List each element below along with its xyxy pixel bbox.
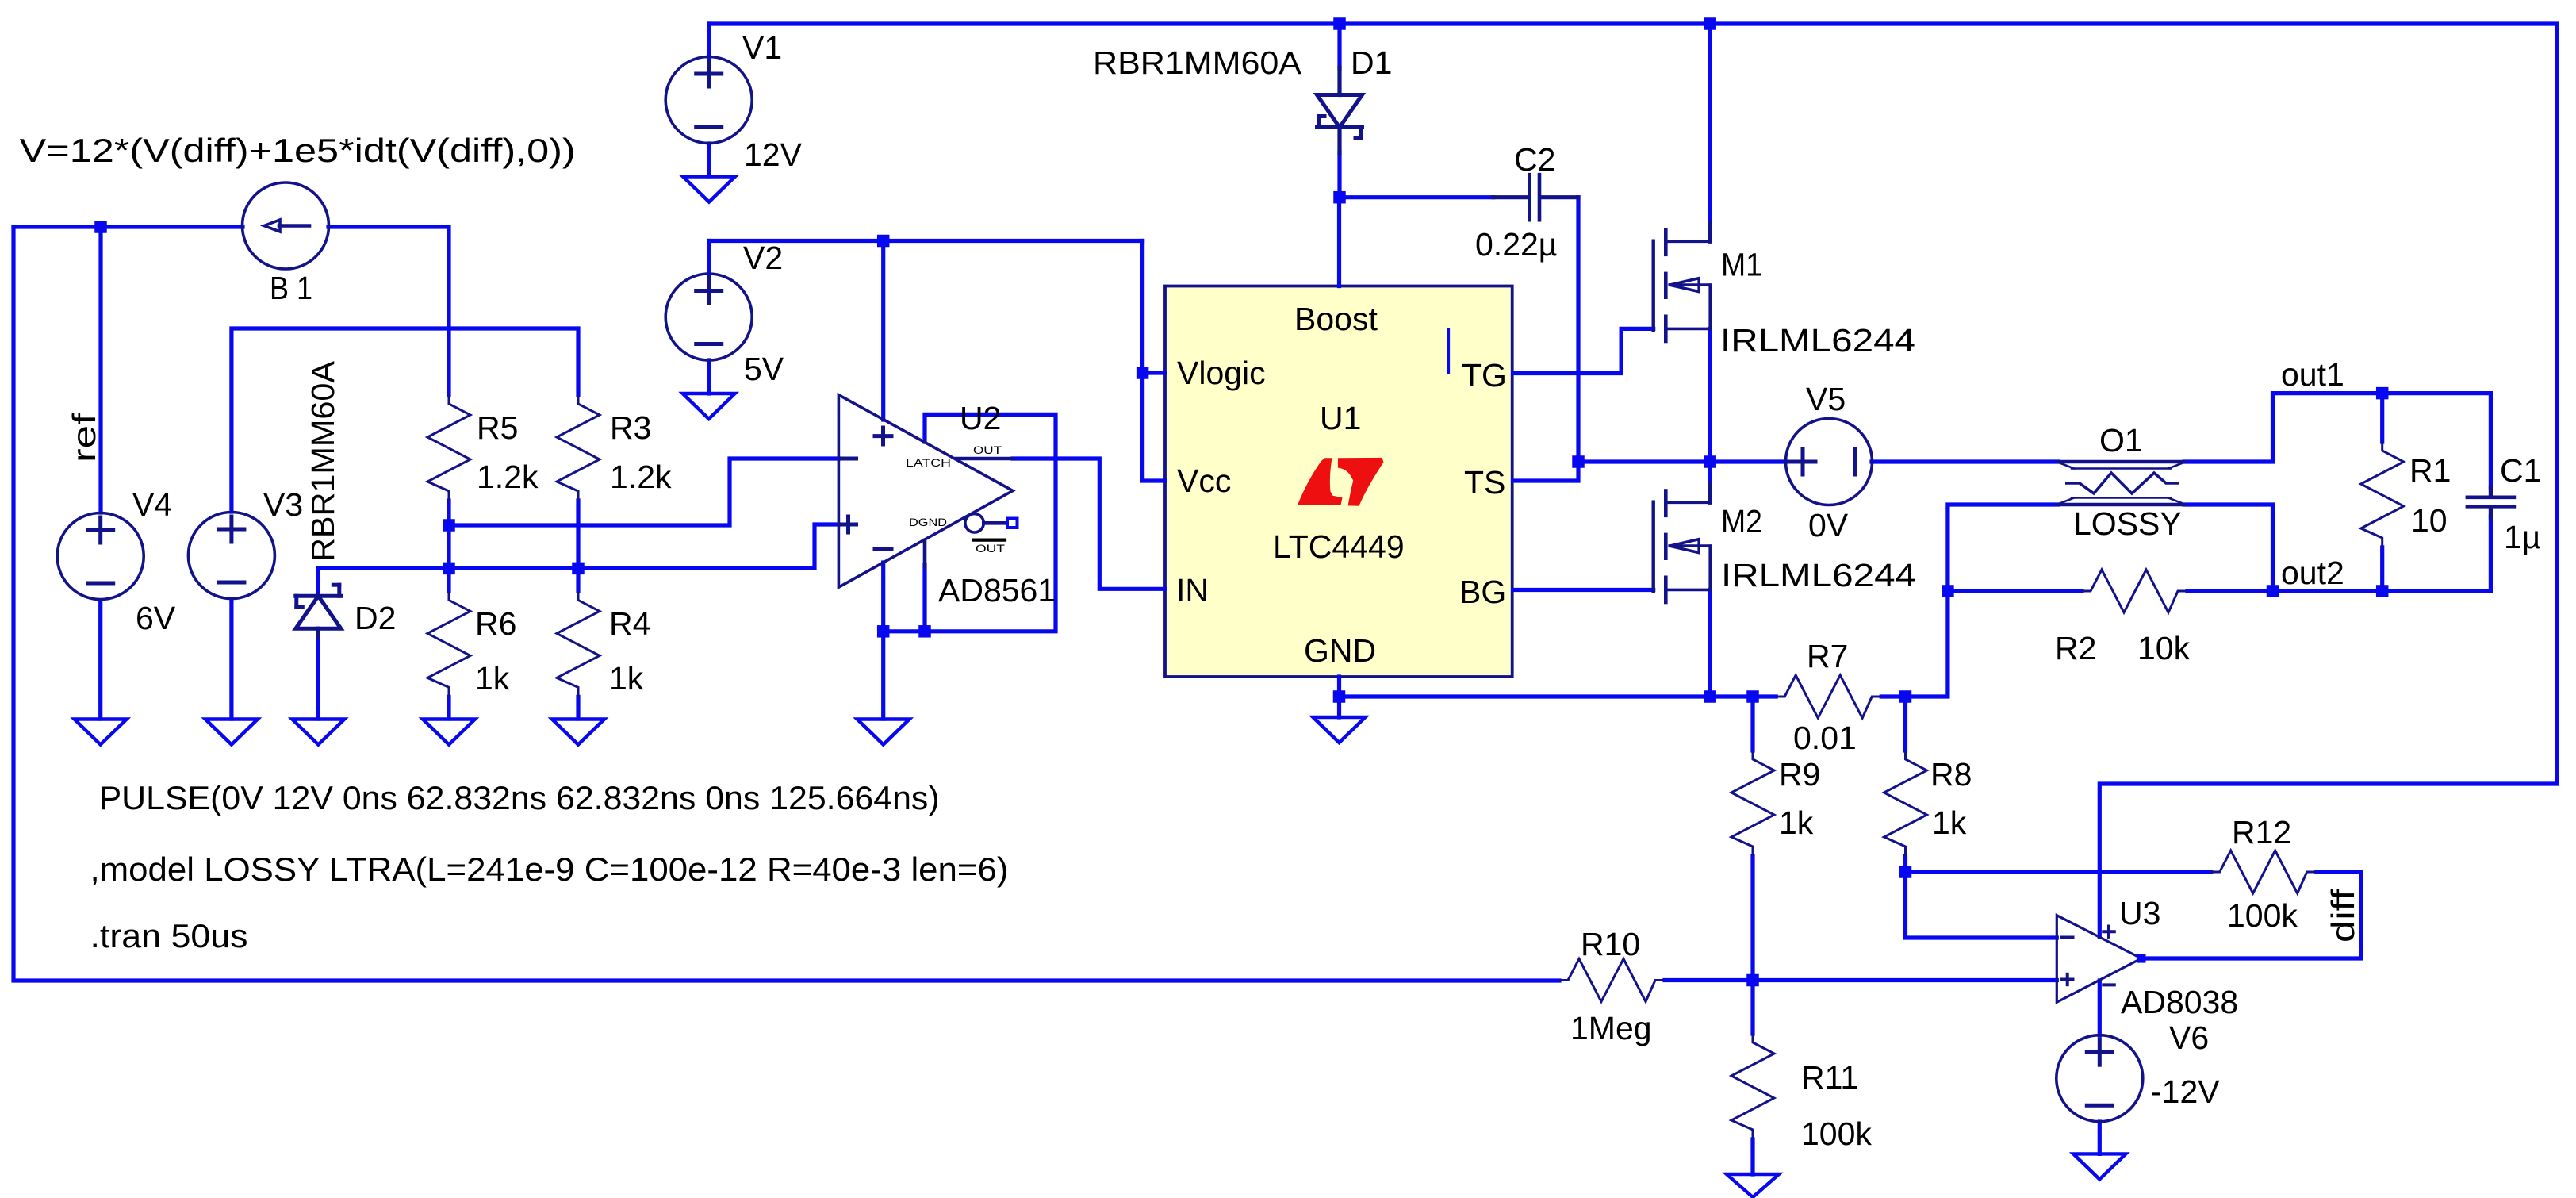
- wire TS pin stub: [1513, 462, 1578, 481]
- wire U2 DGND column: [922, 565, 926, 632]
- voltage source V4 symbol: [57, 513, 144, 600]
- svg-text:M1: M1: [1721, 247, 1762, 283]
- wire R3 bottom to junction: [576, 501, 580, 568]
- behavioral current source B1 symbol: [243, 182, 329, 269]
- wire R8 bottom lead: [1903, 856, 1907, 872]
- wire Vlogic pin stub: [1143, 371, 1165, 374]
- label V2: [743, 240, 783, 276]
- label C1 value: [2504, 519, 2540, 555]
- label V6 value -12V: [2151, 1073, 2220, 1110]
- wire node R5R6 column: [447, 525, 450, 568]
- wire M2 source to GND row: [1708, 590, 1712, 697]
- wire R4 top lead: [576, 568, 580, 591]
- wire TS row to M2 drain: [1708, 462, 1712, 486]
- voltage source V2 symbol: [665, 274, 752, 360]
- capacitor C2 plates: [1530, 175, 1540, 220]
- ground below D2: [292, 720, 344, 745]
- svg-text:OUT: OUT: [973, 444, 1002, 456]
- svg-text:V3: V3: [263, 486, 303, 523]
- svg-text:TS: TS: [1464, 464, 1505, 501]
- diode D1 symbol: [1317, 68, 1363, 153]
- wire C2 left lead: [1340, 195, 1494, 199]
- label V2 value 5V: [744, 351, 784, 387]
- svg-text:Boost: Boost: [1294, 301, 1378, 337]
- label R12 value: [2227, 897, 2298, 934]
- voltage source V3 symbol: [188, 513, 274, 599]
- wire R9 top lead: [1750, 697, 1754, 751]
- wire U3 V- to V6: [2098, 981, 2102, 1035]
- wire R11 bottom to ground: [1750, 1139, 1754, 1174]
- svg-text:1k: 1k: [1779, 804, 1814, 841]
- wire R12 right to diff loop: [2141, 872, 2361, 958]
- svg-text:LTC4449: LTC4449: [1273, 528, 1405, 565]
- svg-text:RBR1MM60A: RBR1MM60A: [305, 360, 341, 562]
- svg-text:1Meg: 1Meg: [1570, 1010, 1652, 1046]
- svg-text:6V: 6V: [136, 600, 176, 636]
- wire R1 top lead: [2380, 394, 2384, 442]
- voltage source V6 symbol: [2057, 1035, 2143, 1122]
- svg-text:R2: R2: [2055, 630, 2096, 666]
- wire O1 top-right to out1 row: [2184, 394, 2490, 462]
- wire R5 bottom to junction: [447, 501, 450, 525]
- label U1 pin Boost: [1294, 301, 1378, 337]
- wire D2 row to U2 non-inverting input: [318, 524, 838, 596]
- svg-text:U3: U3: [2119, 895, 2160, 931]
- wire O1 bottom-right to out2 row: [2184, 505, 2273, 591]
- transistor M2 IRLML6244 symbol: [1654, 484, 1711, 602]
- label C2 value: [1475, 226, 1557, 263]
- svg-text:.tran 50us: .tran 50us: [90, 917, 248, 954]
- svg-text:OUT: OUT: [976, 543, 1005, 555]
- svg-text:10: 10: [2411, 502, 2448, 539]
- svg-text:100k: 100k: [2227, 897, 2298, 934]
- label U2 pin DGND: [909, 516, 947, 528]
- label out2 net: [2281, 555, 2344, 591]
- label O1: [2099, 422, 2143, 459]
- svg-text:0.22µ: 0.22µ: [1475, 226, 1557, 263]
- wire R2 right lead: [2187, 589, 2273, 593]
- voltage source V1 symbol: [665, 57, 752, 144]
- svg-text:RBR1MM60A: RBR1MM60A: [1093, 44, 1302, 81]
- svg-text:LATCH: LATCH: [906, 457, 951, 469]
- ground below R6: [423, 720, 475, 745]
- svg-text:R4: R4: [609, 605, 650, 642]
- wire U1 GND pin: [1337, 677, 1341, 697]
- svg-text:V4: V4: [132, 486, 172, 523]
- label V6: [2169, 1019, 2209, 1056]
- svg-text:AD8038: AD8038: [2121, 984, 2238, 1020]
- ground below R11: [1727, 1174, 1779, 1197]
- label R3 value: [610, 459, 672, 495]
- svg-text:12V: 12V: [744, 136, 803, 173]
- op-amp U3 AD8038 symbol: [2057, 916, 2145, 1003]
- wire B1 right to R5 top: [328, 227, 449, 395]
- wire R2 left lead: [1948, 589, 2082, 593]
- ground below V2: [683, 394, 735, 419]
- wire C1 top lead: [2489, 394, 2493, 487]
- label M2: [1721, 503, 1762, 539]
- transistor M1 IRLML6244 symbol: [1654, 223, 1711, 341]
- wire Boost pin column: [1337, 198, 1341, 286]
- label V5 value 0V: [1808, 507, 1849, 543]
- label V4 value 6V: [136, 600, 176, 636]
- label V5: [1806, 381, 1846, 417]
- wire M1 drain column: [1708, 24, 1712, 225]
- label model directive: [90, 851, 1009, 888]
- label PULSE directive: [99, 779, 940, 816]
- label M1 part IRLML6244: [1720, 322, 1915, 359]
- svg-text:LOSSY: LOSSY: [2073, 505, 2182, 542]
- label R11: [1801, 1059, 1858, 1096]
- wire V2 bottom to ground: [707, 360, 711, 394]
- label C2: [1514, 141, 1555, 178]
- svg-text:B 1: B 1: [270, 270, 312, 306]
- wire junction dots: [94, 17, 2388, 986]
- resistor R3 body: [557, 395, 600, 501]
- label D2: [355, 600, 396, 636]
- svg-text:R9: R9: [1779, 756, 1820, 793]
- resistor R8 body: [1884, 751, 1927, 856]
- svg-text:TG: TG: [1462, 357, 1507, 394]
- wire GND row left of R7: [1340, 694, 1777, 698]
- overline of OUTbar: [974, 538, 1005, 541]
- svg-text:AD8561: AD8561: [938, 572, 1056, 609]
- resistor R1 body: [2361, 442, 2404, 547]
- label B1 value expression: [20, 132, 576, 169]
- ground below U2: [857, 720, 910, 745]
- svg-text:DGND: DGND: [909, 516, 947, 528]
- resistor R9 body: [1731, 751, 1774, 856]
- op-amp driver U1 LTC4449 body: [1165, 286, 1512, 678]
- wire D1 top lead: [1337, 24, 1341, 69]
- wire TG net tick inside U1: [1447, 329, 1450, 373]
- svg-text:M2: M2: [1721, 503, 1762, 539]
- label R10 value: [1570, 1010, 1652, 1046]
- wire R4 bottom to ground: [576, 697, 580, 719]
- wire V3 bottom to ground: [229, 600, 233, 719]
- wire V5 right to O1 top-left: [1872, 459, 2058, 463]
- wire B1 left segment: [13, 225, 243, 228]
- svg-text:1k: 1k: [1932, 804, 1967, 841]
- svg-text:R1: R1: [2409, 452, 2451, 489]
- label B1: [270, 270, 312, 306]
- ground below V1: [683, 177, 735, 202]
- svg-text:IN: IN: [1176, 572, 1209, 609]
- label R2: [2055, 630, 2096, 666]
- label R1 value: [2411, 502, 2448, 539]
- wire V1 top lead: [707, 24, 711, 57]
- label out1 net: [2281, 356, 2344, 393]
- label V3: [263, 486, 303, 523]
- label U1 pin IN: [1176, 572, 1209, 609]
- label ref net: [66, 413, 102, 463]
- svg-text:BG: BG: [1459, 574, 1506, 610]
- label U1 pin GND: [1304, 632, 1376, 669]
- svg-text:R12: R12: [2232, 814, 2291, 851]
- svg-text:R8: R8: [1930, 756, 1972, 793]
- label U2: [960, 400, 1001, 436]
- label R4 value: [609, 660, 644, 697]
- svg-text:C2: C2: [1514, 141, 1555, 178]
- label U1: [1320, 400, 1361, 436]
- svg-text:D2: D2: [355, 600, 396, 636]
- label R8: [1930, 756, 1972, 793]
- wire M1 source to TS row: [1708, 328, 1712, 462]
- wire R9 bottom to R10 row: [1750, 856, 1754, 981]
- wire R8 junction to R12: [1906, 870, 2211, 874]
- wire C2 right column to TS junction: [1576, 198, 1580, 462]
- wire V6 bottom to ground: [2098, 1122, 2102, 1154]
- wire TG pin to M1 gate: [1513, 328, 1654, 373]
- label U1 pin Vcc: [1177, 463, 1231, 499]
- svg-text:out1: out1: [2281, 356, 2344, 393]
- wire top 12V rail with right border to U3 V+: [709, 24, 2557, 937]
- label R5 value: [477, 459, 539, 495]
- resistor R6 body: [427, 591, 470, 697]
- label U1 part LTC4449: [1273, 528, 1405, 565]
- label D1: [1351, 44, 1392, 81]
- label R2 value: [2137, 630, 2191, 666]
- diode D2 symbol: [296, 585, 341, 637]
- svg-text:1.2k: 1.2k: [477, 459, 539, 495]
- wire U1 ground stub: [1337, 697, 1341, 717]
- label C1: [2500, 452, 2541, 489]
- wire V2 top lead: [707, 241, 711, 275]
- wire BG pin to M2 gate: [1513, 588, 1654, 592]
- wire R11 top lead: [1750, 981, 1754, 1035]
- svg-text:10k: 10k: [2137, 630, 2191, 666]
- svg-text:R11: R11: [1801, 1059, 1858, 1096]
- wire R5-junction row to U2 inverting input: [449, 459, 838, 525]
- svg-text:1k: 1k: [475, 660, 510, 697]
- wire C1 bottom lead: [2489, 516, 2493, 591]
- svg-text:5V: 5V: [744, 351, 784, 387]
- wire R6 bottom to ground: [447, 697, 450, 719]
- svg-text:V5: V5: [1806, 381, 1846, 417]
- svg-text:R3: R3: [610, 409, 651, 446]
- svg-text:PULSE(0V 12V 0ns 62.832ns 62.8: PULSE(0V 12V 0ns 62.832ns 62.832ns 0ns 1…: [99, 779, 940, 816]
- wire GND row right of R7: [1881, 694, 1905, 698]
- wire U2 V- column to ground: [881, 563, 885, 719]
- label R6 value: [475, 660, 510, 697]
- svg-text:V1: V1: [742, 29, 782, 66]
- label M2 part IRLML6244: [1721, 557, 1916, 593]
- resistor R7 body: [1776, 675, 1881, 718]
- svg-text:100k: 100k: [1801, 1115, 1872, 1152]
- svg-text:,model LOSSY LTRA(L=241e-9 C=1: ,model LOSSY LTRA(L=241e-9 C=100e-12 R=4…: [90, 851, 1009, 888]
- svg-text:-12V: -12V: [2151, 1073, 2220, 1110]
- wire inverting input of U3: [1906, 872, 2057, 938]
- svg-text:R5: R5: [477, 409, 518, 446]
- svg-text:V=12*(V(diff)+1e5*idt(V(diff),: V=12*(V(diff)+1e5*idt(V(diff),0)): [20, 132, 576, 169]
- svg-text:R10: R10: [1581, 926, 1640, 962]
- label R6: [475, 605, 516, 642]
- label V4: [132, 486, 172, 523]
- resistor R5 body: [427, 395, 470, 501]
- resistor R10 body: [1559, 959, 1665, 1002]
- label M1: [1721, 247, 1762, 283]
- wire R10 row to U3 non-inverting input: [1665, 978, 2057, 982]
- capacitor C1 leads: [2489, 487, 2493, 517]
- svg-text:ref: ref: [66, 413, 102, 463]
- svg-text:0V: 0V: [1808, 507, 1849, 543]
- wire U2 LATCH to box top: [884, 414, 1056, 631]
- label RBR1MM60A for D2: [305, 360, 341, 562]
- LT logo on U1: [1298, 458, 1384, 506]
- label R12: [2232, 814, 2291, 851]
- wire V3 top to R3 top row: [232, 328, 578, 512]
- svg-text:V6: V6: [2169, 1019, 2209, 1056]
- capacitor C2 leads: [1493, 195, 1578, 199]
- svg-text:U2: U2: [960, 400, 1001, 436]
- wire V1 bottom to ground: [707, 144, 711, 176]
- wire R8 top lead: [1903, 697, 1907, 751]
- svg-text:1µ: 1µ: [2504, 519, 2540, 555]
- wire R1 bottom lead: [2380, 547, 2384, 591]
- label R7 value: [1793, 720, 1857, 756]
- label U3: [2119, 895, 2160, 931]
- label U2 pin LATCH: [906, 457, 951, 469]
- resistor R4 body: [557, 591, 600, 697]
- svg-text:diff: diff: [2325, 889, 2361, 943]
- svg-text:Vlogic: Vlogic: [1177, 355, 1266, 391]
- svg-text:1k: 1k: [609, 660, 644, 697]
- svg-text:out2: out2: [2281, 555, 2344, 591]
- label R5: [477, 409, 518, 446]
- svg-text:IRLML6244: IRLML6244: [1721, 557, 1916, 593]
- comparator U2 AD8561 symbol: [838, 395, 1017, 588]
- svg-text:Vcc: Vcc: [1177, 463, 1231, 499]
- label R3: [610, 409, 651, 446]
- label RBR1MM60A for D1: [1093, 44, 1302, 81]
- wire Vlogic-Vcc column: [1143, 241, 1165, 482]
- label R9 value: [1779, 804, 1814, 841]
- svg-text:0.01: 0.01: [1793, 720, 1857, 756]
- svg-text:1.2k: 1.2k: [610, 459, 672, 495]
- wire TS row to V5: [1578, 459, 1786, 463]
- wire U2 V+ supply column: [881, 241, 885, 420]
- label diff net: [2325, 889, 2361, 943]
- label U1 pin TS: [1464, 464, 1505, 501]
- wire O1 bottom-left to GND junction: [1906, 505, 2059, 697]
- label R8 value: [1932, 804, 1967, 841]
- svg-text:R7: R7: [1807, 638, 1848, 674]
- ground below V6: [2073, 1154, 2126, 1179]
- svg-text:GND: GND: [1304, 632, 1376, 669]
- label U2 part AD8561: [938, 572, 1056, 609]
- ground below V4: [75, 720, 127, 745]
- wire node ref column B1 to V4: [98, 227, 102, 513]
- label U1 pin TG: [1462, 357, 1507, 394]
- wire D1 bottom to C2 junction: [1337, 152, 1341, 198]
- resistor R12 body: [2211, 851, 2317, 893]
- svg-text:U1: U1: [1320, 400, 1361, 436]
- ground below U1: [1313, 717, 1366, 743]
- resistor R11 body: [1731, 1034, 1774, 1139]
- wire V4 bottom to ground: [98, 601, 102, 719]
- svg-text:R6: R6: [475, 605, 516, 642]
- ground below V3: [205, 720, 258, 745]
- wire R6 top lead: [447, 568, 450, 591]
- svg-text:C1: C1: [2500, 452, 2541, 489]
- label R10: [1581, 926, 1640, 962]
- label U3 part AD8038: [2121, 984, 2238, 1020]
- svg-text:IRLML6244: IRLML6244: [1720, 322, 1915, 359]
- svg-text:V2: V2: [743, 240, 783, 276]
- wire D2 bottom to ground: [316, 637, 320, 719]
- wire out2 row: [2273, 589, 2491, 593]
- wire V2 row to U1 Vlogic column: [709, 239, 1143, 243]
- resistor R2 body: [2082, 570, 2187, 612]
- label R7: [1807, 638, 1848, 674]
- transmission line O1 symbol: [2058, 462, 2184, 505]
- capacitor C1 plates: [2467, 497, 2514, 507]
- voltage source V5 symbol: [1786, 419, 1873, 505]
- label R4: [609, 605, 650, 642]
- svg-text:D1: D1: [1351, 44, 1392, 81]
- wire left border to R10 row: [13, 227, 1559, 981]
- label R11 value: [1801, 1115, 1872, 1152]
- label V1 value 12V: [744, 136, 803, 173]
- label R9: [1779, 756, 1820, 793]
- label V1: [742, 29, 782, 66]
- label U1 pin Vlogic: [1177, 355, 1266, 391]
- wire U2 OUT to U1 IN: [1013, 459, 1165, 589]
- label U2 pin OUTbar: [976, 543, 1005, 555]
- svg-text:O1: O1: [2099, 422, 2143, 459]
- ground below R4: [552, 720, 604, 745]
- label U1 pin BG: [1459, 574, 1506, 610]
- label R1: [2409, 452, 2451, 489]
- label tran directive: [90, 917, 248, 954]
- label U2 pin OUT: [973, 444, 1002, 456]
- label O1 model LOSSY: [2073, 505, 2182, 542]
